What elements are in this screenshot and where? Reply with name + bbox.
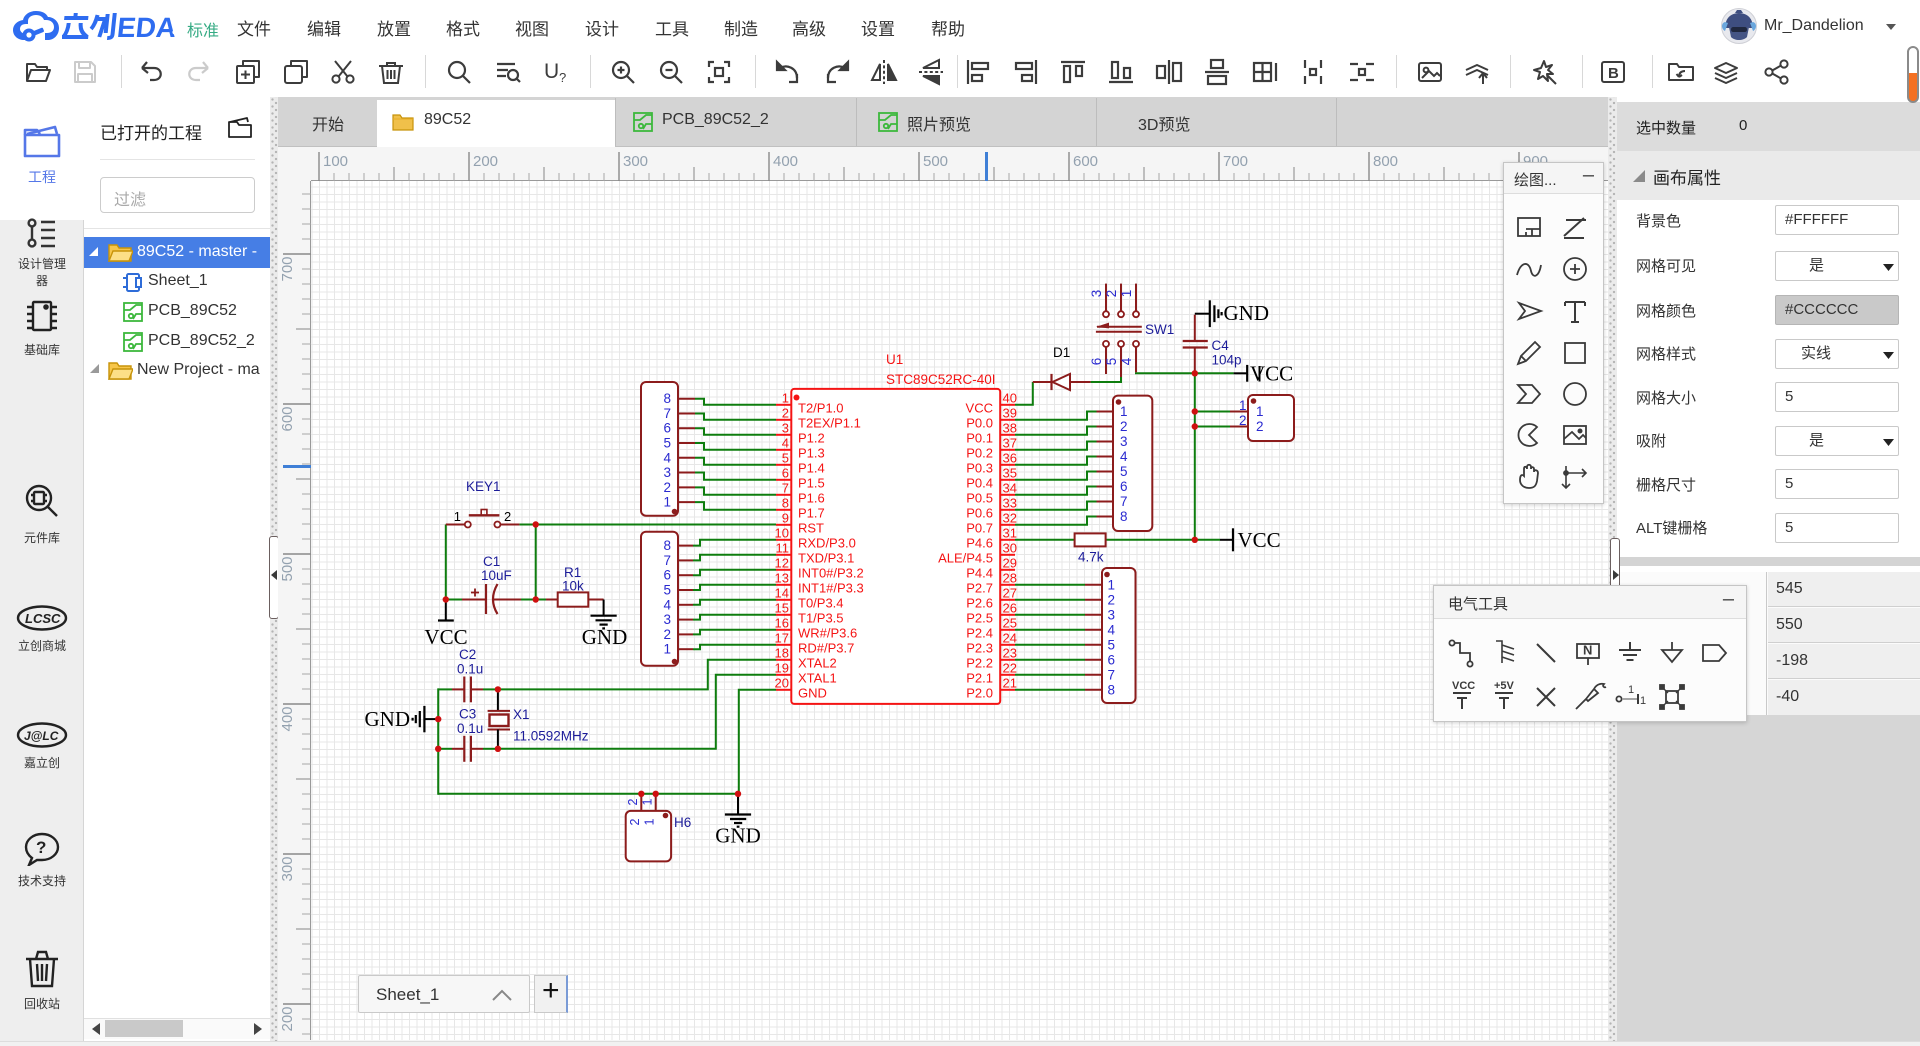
- U1 pin 14 (T0/P3.4): [775, 585, 844, 610]
- junction (738,793.8): [735, 791, 741, 797]
- svg-text:P2.0: P2.0: [966, 685, 993, 700]
- wire KEY1 pin1 to VCC rail: [445, 525, 447, 601]
- canvas properties header: [1617, 151, 1920, 200]
- U1 pin 6 (P1.5): [776, 465, 825, 490]
- svg-text:T2/P1.0: T2/P1.0: [798, 400, 844, 415]
- svg-text:35: 35: [1003, 465, 1017, 480]
- wire VCC vertical bus: [1194, 373, 1196, 540]
- 立创商城 LCSC: [0, 605, 84, 654]
- svg-text:GND: GND: [1224, 301, 1270, 325]
- svg-text:2: 2: [1256, 419, 1264, 434]
- 技术支持: [0, 832, 84, 889]
- svg-text:P2.5: P2.5: [966, 610, 993, 625]
- svg-text:104p: 104p: [1212, 353, 1242, 368]
- 4.7k value label: [1078, 550, 1104, 565]
- bottom filler: [1617, 715, 1920, 1041]
- wire P2 header pin8 to U1 pin21: [1015, 689, 1085, 691]
- C2 labels: [457, 647, 483, 677]
- svg-text:34: 34: [1003, 480, 1017, 495]
- svg-text:P2.7: P2.7: [966, 580, 993, 595]
- svg-text:U1: U1: [886, 352, 903, 367]
- svg-text:VCC: VCC: [966, 400, 993, 415]
- svg-text:21: 21: [1003, 675, 1017, 690]
- wire junction down to C1 row: [535, 525, 537, 600]
- selected project row: [84, 237, 270, 268]
- svg-text:D1: D1: [1053, 345, 1070, 360]
- svg-text:600: 600: [279, 406, 296, 431]
- svg-text:P4.4: P4.4: [966, 565, 993, 580]
- junction (655.7,793.8): [653, 791, 659, 797]
- power flag VCC (top, overlapped): [1234, 362, 1294, 386]
- svg-text:1: 1: [1108, 577, 1116, 592]
- svg-text:P4.6: P4.6: [966, 535, 993, 550]
- svg-text:P0.4: P0.4: [966, 475, 993, 490]
- svg-text:1: 1: [1628, 684, 1634, 696]
- wire junction to R1 left: [536, 599, 546, 601]
- U1 pin 28 (P2.7): [966, 570, 1017, 595]
- U1 pin 21 (P2.0): [966, 675, 1017, 700]
- svg-text:INT0#/P3.2: INT0#/P3.2: [798, 565, 864, 580]
- svg-text:T1/P3.5: T1/P3.5: [798, 610, 844, 625]
- svg-text:P2.6: P2.6: [966, 595, 993, 610]
- svg-text:9: 9: [782, 510, 789, 525]
- svg-text:VCC: VCC: [1238, 528, 1281, 552]
- svg-text:5: 5: [1104, 358, 1119, 366]
- svg-text:0.1u: 0.1u: [457, 721, 483, 736]
- svg-text:2: 2: [782, 405, 789, 420]
- right edge pill scrollbar: [1907, 46, 1919, 103]
- wire 4.7k right to VCC junction: [1106, 539, 1195, 541]
- junction (438.2,719.1): [435, 716, 441, 722]
- svg-text:5: 5: [782, 450, 789, 465]
- wire P6 pin4 to U1 pin5: [695, 458, 776, 465]
- wire C2 left rail: [438, 688, 452, 690]
- svg-text:P1.6: P1.6: [798, 490, 825, 505]
- power flag VCC (KEY1): [424, 600, 467, 650]
- wire P6 pin3 to U1 pin6: [695, 473, 776, 480]
- svg-text:5: 5: [663, 436, 671, 451]
- U1 pin 19 (XTAL1): [775, 660, 837, 685]
- svg-text:3: 3: [663, 612, 671, 627]
- svg-text:?: ?: [559, 70, 566, 85]
- svg-text:8: 8: [782, 495, 789, 510]
- U1 pin 38 (P0.1): [966, 420, 1017, 445]
- svg-text:6: 6: [1120, 479, 1128, 494]
- ground flag GND (bottom): [715, 794, 761, 848]
- wire D1 cathode to SW1 pin5: [1091, 377, 1121, 382]
- U1 pin 20 (GND): [775, 675, 827, 700]
- svg-text:11.0592MHz: 11.0592MHz: [513, 729, 589, 744]
- svg-text:VCC: VCC: [1452, 680, 1475, 692]
- svg-text:8: 8: [1108, 682, 1116, 697]
- svg-text:8: 8: [663, 391, 671, 406]
- ground flag GND (C4, rotated): [1195, 300, 1269, 327]
- C4 labels: [1212, 338, 1242, 368]
- wire P2 header pin7 to U1 pin22: [1015, 674, 1085, 676]
- svg-text:29: 29: [1003, 555, 1017, 570]
- svg-text:T0/P3.4: T0/P3.4: [798, 595, 844, 610]
- svg-text:LCSC: LCSC: [25, 611, 61, 626]
- junction (641.3,793.8): [638, 791, 644, 797]
- svg-text:5: 5: [663, 583, 671, 598]
- wire P2 header pin5 to U1 pin24: [1015, 644, 1085, 646]
- PCB_89C52: [123, 302, 143, 322]
- wire P0 header pin5 to U1 pin35: [1015, 472, 1097, 480]
- U1 pin 13 (INT1#/P3.3): [775, 570, 864, 595]
- svg-text:1: 1: [782, 390, 789, 405]
- bottom page strip: [0, 1041, 1920, 1046]
- logo cloud: [12, 8, 60, 44]
- wire SW1 pin4 to C4 junction: [1136, 372, 1195, 373]
- svg-text:TXD/P3.1: TXD/P3.1: [798, 550, 854, 565]
- svg-text:RXD/P3.0: RXD/P3.0: [798, 535, 856, 550]
- wire 2pin header pin1: [1195, 411, 1230, 413]
- svg-text:1: 1: [1640, 695, 1646, 707]
- svg-text:15: 15: [775, 600, 789, 615]
- svg-text:6: 6: [1108, 652, 1116, 667]
- U1 pin 16 (WR#/P3.6): [775, 615, 858, 640]
- junction (445.8,599.5): [443, 596, 449, 602]
- svg-text:H6: H6: [674, 815, 691, 830]
- svg-text:3: 3: [1120, 434, 1128, 449]
- svg-text:C1: C1: [483, 554, 500, 569]
- U1 pin 37 (P0.2): [966, 435, 1017, 460]
- svg-text:WR#/P3.6: WR#/P3.6: [798, 625, 857, 640]
- D1 reference label: [1053, 345, 1070, 360]
- U1 pin 25 (P2.4): [966, 615, 1017, 640]
- svg-text:17: 17: [775, 630, 789, 645]
- wire bottom GND rail: [438, 793, 738, 795]
- collapsed section band: [1617, 557, 1920, 566]
- wire P0 header pin7 to U1 pin33: [1015, 502, 1097, 510]
- svg-text:7: 7: [1120, 494, 1128, 509]
- wire RST net to U1 pin9: [536, 524, 776, 526]
- wire P2 header pin2 to U1 pin27: [1015, 599, 1085, 601]
- svg-text:P0.3: P0.3: [966, 460, 993, 475]
- New Project row: [90, 364, 99, 373]
- svg-text:300: 300: [279, 856, 296, 881]
- wire P6 pin1 to U1 pin8: [695, 502, 776, 510]
- svg-text:1: 1: [643, 818, 657, 825]
- wire P0 header pin6 to U1 pin34: [1015, 487, 1097, 495]
- svg-text:14: 14: [775, 585, 789, 600]
- U1 pin 3 (P1.2): [776, 420, 825, 445]
- svg-text:200: 200: [279, 1006, 296, 1031]
- svg-text:C2: C2: [459, 647, 476, 662]
- svg-text:GND: GND: [798, 685, 827, 700]
- connector H6 (2 pin bottom): [626, 794, 671, 862]
- wire P0 header pin2 to U1 pin38: [1015, 427, 1097, 435]
- U1 pin 31 (P4.6): [966, 525, 1017, 550]
- U1 pin 10 (RXD/P3.0): [775, 525, 856, 550]
- svg-text:SW1: SW1: [1145, 322, 1174, 337]
- wire 4.7k left to U1 pin31: [1015, 539, 1075, 541]
- junction (1194.8,426.5): [1192, 423, 1198, 429]
- svg-text:4: 4: [1119, 357, 1134, 365]
- U1 pin 29 (P4.4): [966, 555, 1017, 580]
- R1 labels: [562, 565, 584, 594]
- svg-text:1: 1: [663, 495, 671, 510]
- svg-text:0.1u: 0.1u: [457, 662, 483, 677]
- capacitor C4: [1183, 315, 1208, 374]
- wire P7 pin3 to U1 pin15: [693, 615, 776, 620]
- svg-text:3: 3: [782, 420, 789, 435]
- U1 pin 36 (P0.3): [966, 450, 1017, 475]
- svg-text:+5V: +5V: [1494, 680, 1515, 692]
- svg-text:8: 8: [1120, 509, 1128, 524]
- svg-text:2: 2: [628, 818, 642, 825]
- wire P6 pin5 to U1 pin4: [695, 443, 776, 450]
- svg-text:XTAL1: XTAL1: [798, 670, 837, 685]
- U1 pin 39 (P0.0): [966, 405, 1017, 430]
- 设计管理器: [0, 217, 84, 289]
- svg-text:P0.0: P0.0: [966, 415, 993, 430]
- svg-text:X1: X1: [513, 707, 530, 722]
- wire P0 header pin4 to U1 pin36: [1015, 457, 1097, 465]
- selected count row: [1617, 102, 1920, 151]
- wire P2 header pin3 to U1 pin26: [1015, 614, 1085, 616]
- U1 pin 22 (P2.1): [966, 660, 1017, 685]
- 基础库: [0, 297, 84, 358]
- wire bus to VCC flag (top): [1195, 372, 1234, 374]
- svg-text:11: 11: [776, 540, 790, 555]
- pushbutton KEY1: [446, 509, 520, 528]
- svg-text:GND: GND: [582, 625, 628, 649]
- svg-text:U: U: [544, 60, 559, 83]
- connector header P6 (top-left 8 pin): [641, 382, 695, 516]
- wire P7 pin7 to U1 pin11: [693, 555, 776, 561]
- svg-text:ALE/P4.5: ALE/P4.5: [938, 550, 993, 565]
- wire C2 right to X1 top junction: [483, 688, 498, 690]
- svg-text:32: 32: [1003, 510, 1017, 525]
- U1 pin 5 (P1.4): [776, 450, 825, 475]
- svg-text:P0.7: P0.7: [966, 520, 993, 535]
- wire P6 pin2 to U1 pin7: [695, 487, 776, 494]
- svg-text:400: 400: [279, 706, 296, 731]
- svg-text:1: 1: [1239, 398, 1247, 413]
- svg-text:2: 2: [626, 798, 640, 805]
- svg-text:2: 2: [1108, 592, 1116, 607]
- junction (1194.8,411.5): [1192, 408, 1198, 414]
- coordinates table: [1617, 572, 1920, 715]
- svg-text:P1.7: P1.7: [798, 505, 825, 520]
- svg-text:36: 36: [1003, 450, 1017, 465]
- svg-text:12: 12: [775, 555, 789, 570]
- wire P6 pin8 to U1 pin1: [695, 399, 776, 405]
- svg-text:1: 1: [641, 798, 655, 805]
- logo text 立创EDA (drawn): [62, 11, 187, 41]
- svg-text:3: 3: [663, 465, 671, 480]
- wire P7 pin6 to U1 pin12: [693, 570, 776, 575]
- wire P7 pin8 to U1 pin10: [693, 540, 776, 546]
- junction (497.9,689.4): [495, 686, 501, 692]
- svg-text:GND: GND: [715, 824, 761, 848]
- svg-text:2: 2: [504, 509, 511, 524]
- svg-text:18: 18: [775, 645, 789, 660]
- svg-text:16: 16: [775, 615, 789, 630]
- svg-text:XTAL2: XTAL2: [798, 655, 837, 670]
- svg-text:5: 5: [1120, 464, 1128, 479]
- junction (535.7,599.5): [533, 596, 539, 602]
- wire 2pin header pin2: [1195, 426, 1230, 428]
- capacitor C3: [452, 736, 483, 762]
- svg-text:24: 24: [1003, 630, 1017, 645]
- left dotted divider: [270, 97, 278, 1046]
- svg-text:30: 30: [1003, 540, 1017, 555]
- svg-text:31: 31: [1003, 525, 1017, 540]
- svg-text:3: 3: [1089, 290, 1104, 298]
- wire VCC junction to VCC flag (right): [1195, 539, 1220, 541]
- svg-text:6: 6: [1089, 358, 1104, 366]
- svg-text:33: 33: [1003, 495, 1017, 510]
- svg-text:P2.4: P2.4: [966, 625, 993, 640]
- connector header P0 (top-right 8 pin): [1097, 396, 1153, 531]
- svg-text:5: 5: [1108, 637, 1116, 652]
- svg-text:STC89C52RC-40I: STC89C52RC-40I: [886, 372, 996, 387]
- svg-text:P1.3: P1.3: [798, 445, 825, 460]
- resistor R1 10k: [546, 592, 604, 606]
- svg-text:4: 4: [1108, 622, 1116, 637]
- U1 pin 26 (P2.5): [966, 600, 1017, 625]
- connector header P2 (bottom-right 8 pin): [1085, 568, 1136, 703]
- power flag VCC (right): [1220, 528, 1281, 552]
- svg-text:27: 27: [1003, 585, 1017, 600]
- drawing tools floating panel: [1503, 162, 1604, 504]
- U1 pin 32 (P0.7): [966, 510, 1017, 535]
- connector header P7 (bottom-left 8 pin): [641, 532, 693, 666]
- wire X1 top to XTAL2 (U1 pin18): [498, 660, 776, 690]
- 元件库: [0, 481, 84, 546]
- U1 pin 4 (P1.3): [776, 435, 825, 460]
- resistor 4.7k: [1075, 533, 1106, 546]
- svg-text:10: 10: [775, 525, 789, 540]
- svg-text:28: 28: [1003, 570, 1017, 585]
- svg-text:1: 1: [663, 642, 671, 657]
- svg-text:23: 23: [1003, 645, 1017, 660]
- U1 reference designator: [886, 352, 903, 367]
- wire P2 header pin4 to U1 pin25: [1015, 629, 1085, 631]
- svg-text:P2.1: P2.1: [966, 670, 993, 685]
- svg-text:2: 2: [1104, 290, 1119, 298]
- diode D1: [1033, 374, 1091, 390]
- svg-text:2: 2: [663, 480, 671, 495]
- svg-text:C3: C3: [459, 707, 476, 722]
- wire C1 right to junction: [494, 599, 537, 601]
- wire left GND rail vertical: [437, 688, 439, 794]
- wire VCC to C1 left: [445, 599, 462, 601]
- svg-text:4: 4: [782, 435, 789, 450]
- svg-text:20: 20: [775, 675, 789, 690]
- wire D1 anode to U1 pin40: [1015, 382, 1033, 405]
- ground flag GND (R1): [582, 600, 628, 650]
- U1 origin dot: [794, 395, 800, 401]
- U1 pin 30 (ALE/P4.5): [938, 540, 1017, 565]
- 工程 (active): [0, 123, 84, 187]
- U1 pin 15 (T1/P3.5): [775, 600, 844, 625]
- svg-text:500: 500: [279, 556, 296, 581]
- capacitor C1 (polarized): [462, 584, 521, 614]
- U1 pin 40 (VCC): [966, 390, 1017, 415]
- U1 pin 17 (RD#/P3.7): [775, 630, 855, 655]
- svg-text:700: 700: [279, 256, 296, 281]
- left divider collapse handle: [269, 536, 279, 619]
- svg-text:?: ?: [36, 838, 46, 857]
- PCB_89C52_2: [123, 332, 143, 352]
- connector header P5 (2 pin): [1230, 395, 1294, 441]
- svg-text:KEY1: KEY1: [466, 479, 501, 494]
- 嘉立创 J@LC: [0, 722, 84, 771]
- junction (497.9,748.8): [495, 746, 501, 752]
- U1 pin 33 (P0.6): [966, 495, 1017, 520]
- wire P7 pin2 to U1 pin16: [693, 630, 776, 635]
- C1 labels: [481, 554, 512, 583]
- H6 reference label: [674, 815, 691, 830]
- wire P6 pin7 to U1 pin2: [695, 413, 776, 419]
- junction (438.2,748.8): [435, 746, 441, 752]
- U1 pin 34 (P0.5): [966, 480, 1017, 505]
- wire X1 bottom to XTAL1 (U1 pin19): [498, 675, 776, 749]
- U1 pin 2 (T2EX/P1.1): [776, 405, 861, 430]
- crystal X1: [488, 689, 510, 748]
- svg-text:P2.2: P2.2: [966, 655, 993, 670]
- svg-text:39: 39: [1003, 405, 1017, 420]
- switch SW1 (DIP-3): [1089, 284, 1142, 377]
- svg-text:2: 2: [663, 627, 671, 642]
- wire P0 header pin8 to U1 pin32: [1015, 517, 1097, 525]
- svg-text:25: 25: [1003, 615, 1017, 630]
- wire P6 pin6 to U1 pin3: [695, 428, 776, 435]
- svg-text:4: 4: [1120, 449, 1128, 464]
- U1 pin 7 (P1.6): [776, 480, 825, 505]
- U1 pin 27 (P2.6): [966, 585, 1017, 610]
- svg-text:VCC: VCC: [424, 625, 467, 649]
- wire P7 pin4 to U1 pin14: [693, 600, 776, 605]
- svg-text:1: 1: [1256, 404, 1264, 419]
- 回收站: [0, 949, 84, 1012]
- SW1 reference label: [1145, 322, 1174, 337]
- svg-text:4: 4: [663, 450, 671, 465]
- wire P0 header pin1 to U1 pin39: [1015, 412, 1097, 420]
- svg-text:P0.6: P0.6: [966, 505, 993, 520]
- U1 pin 23 (P2.2): [966, 645, 1017, 670]
- U1 pin 18 (XTAL2): [775, 645, 837, 670]
- U1 part number label: [886, 372, 996, 387]
- svg-text:6: 6: [663, 568, 671, 583]
- svg-text:J@LC: J@LC: [24, 729, 59, 743]
- svg-text:13: 13: [775, 570, 789, 585]
- svg-text:B: B: [1608, 65, 1619, 82]
- svg-text:P0.5: P0.5: [966, 490, 993, 505]
- svg-text:2: 2: [1239, 413, 1247, 428]
- U1 pin 1 (T2/P1.0): [776, 390, 844, 415]
- svg-text:40: 40: [1003, 390, 1017, 405]
- svg-text:1: 1: [1119, 290, 1134, 298]
- svg-text:P2.3: P2.3: [966, 640, 993, 655]
- junction (535.7,524.5): [533, 521, 539, 527]
- bottom horizontal scrollbar of panel: [84, 1018, 270, 1039]
- svg-text:T2EX/P1.1: T2EX/P1.1: [798, 415, 861, 430]
- svg-text:4.7k: 4.7k: [1078, 550, 1104, 565]
- wire P2 header pin6 to U1 pin23: [1015, 659, 1085, 661]
- svg-text:RD#/P3.7: RD#/P3.7: [798, 640, 854, 655]
- U1 pin 9 (RST): [776, 510, 824, 535]
- svg-text:P1.5: P1.5: [798, 475, 825, 490]
- svg-text:26: 26: [1003, 600, 1017, 615]
- wire P0 header pin3 to U1 pin37: [1015, 442, 1097, 450]
- svg-text:10k: 10k: [562, 579, 584, 594]
- svg-text:7: 7: [663, 406, 671, 421]
- U1 pin 35 (P0.4): [966, 465, 1017, 490]
